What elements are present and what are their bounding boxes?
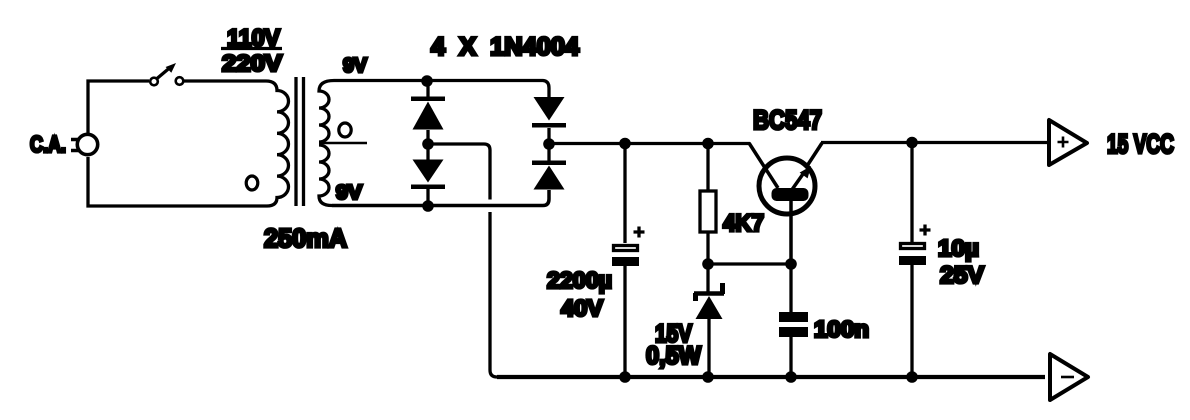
diode D4 (1N4004, right bottom) [532, 144, 566, 190]
switch S1 [150, 63, 183, 85]
wire mid-left node to ground rail (crosses bottom rail with gap) [428, 144, 497, 377]
node mid-right bridge junction (+ output of bridge) [543, 138, 555, 150]
label 15V 0,5W [646, 320, 701, 370]
capacitor C1 2200u electrolytic [612, 144, 645, 378]
wire switch to transformer primary [184, 79, 267, 82]
svg-text:15 VCC: 15 VCC [1107, 129, 1174, 159]
capacitor C2 100n [779, 264, 808, 377]
svg-text:BC547: BC547 [753, 105, 822, 135]
label 10u 25V [938, 235, 985, 289]
svg-text:40V: 40V [561, 295, 603, 321]
label 0 center tap [339, 123, 351, 137]
transformer T1 primary winding [88, 81, 289, 206]
label 0 primary [246, 176, 258, 190]
wire base node horizontal [708, 262, 791, 265]
svg-text:C.A.: C.A. [30, 131, 66, 157]
AC plug J1 [71, 134, 98, 154]
node ground zener [702, 371, 714, 383]
node mid-left bridge junction [422, 138, 434, 150]
node ground 10u [906, 371, 918, 383]
diode D2 (1N4004, left bottom) [411, 144, 445, 202]
svg-text:250mA: 250mA [264, 223, 347, 253]
node bottom-left bridge junction [422, 200, 434, 212]
node base junction right [785, 258, 797, 270]
wire secondary top to bridge top rail [334, 81, 549, 98]
node base junction left [702, 258, 714, 270]
output terminal - [1050, 354, 1088, 400]
wire + rail transistor emitter to output [821, 141, 1048, 144]
transformer T1 secondary winding [319, 81, 334, 206]
svg-text:4 X 1N4004: 4 X 1N4004 [431, 33, 579, 61]
node top-left bridge junction [421, 75, 433, 87]
svg-text:10µ: 10µ [938, 235, 979, 261]
node ground 2200u [619, 371, 631, 383]
svg-text:0,5W: 0,5W [646, 342, 701, 370]
transformer core [296, 77, 304, 206]
diode D1 (1N4004, left top) [411, 81, 445, 140]
node 10u top junction [906, 137, 918, 149]
resistor R1 4K7 [700, 144, 716, 265]
node 4K7 top junction [702, 138, 714, 150]
label 2200u 40V [547, 267, 612, 321]
wire plug to switch [88, 81, 149, 134]
svg-text:25V: 25V [940, 262, 985, 289]
diode D3 (1N4004, right top) [532, 97, 566, 139]
transistor Q1 BC547 [749, 143, 822, 264]
svg-text:100n: 100n [814, 316, 869, 342]
svg-text:9V: 9V [343, 54, 367, 77]
svg-text:4K7: 4K7 [723, 210, 764, 237]
wire ground rail [497, 375, 1045, 379]
zener diode Z1 15V [694, 264, 724, 377]
node ground 100n [785, 371, 797, 383]
svg-text:9V: 9V [336, 182, 363, 204]
wire + rail from bridge to transistor collector [549, 142, 750, 145]
output terminal + (15 VCC) [1049, 120, 1087, 165]
label 110V / 220V [221, 25, 282, 76]
node 2200u top junction [619, 138, 631, 150]
capacitor C3 10u electrolytic [899, 143, 931, 378]
center tap stub wire [319, 142, 367, 145]
svg-text:2200µ: 2200µ [547, 267, 612, 293]
svg-text:220V: 220V [222, 50, 282, 76]
wire bridge bottom rail [332, 190, 549, 206]
